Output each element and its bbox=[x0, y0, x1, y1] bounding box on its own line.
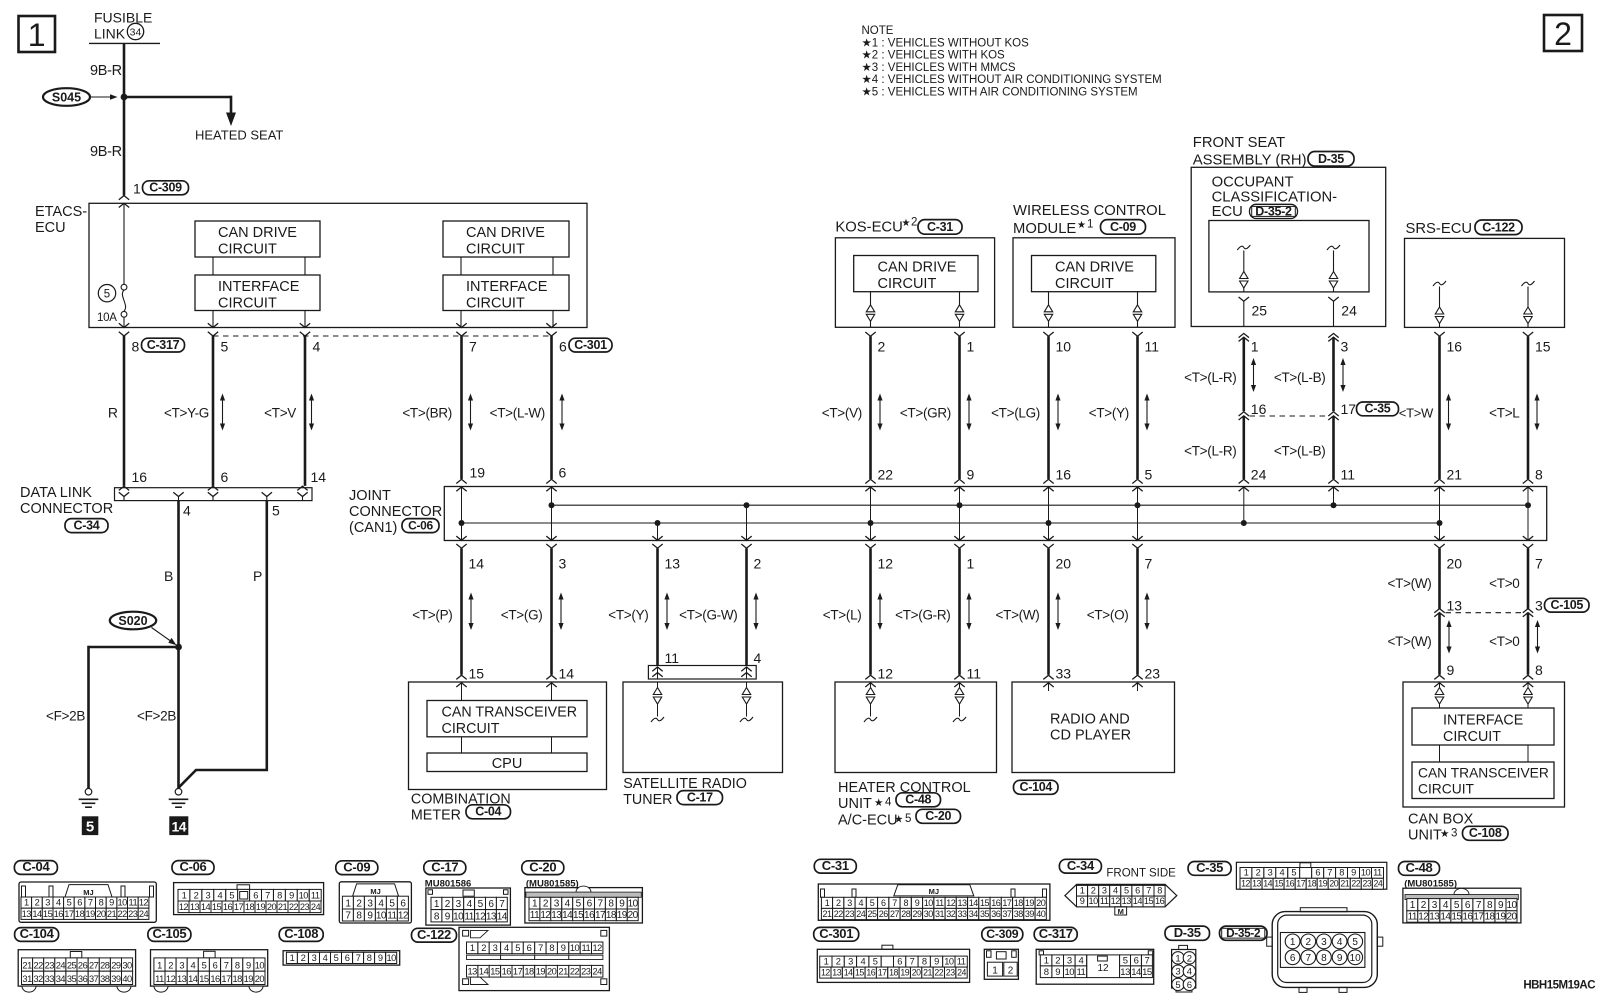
wire exit pin 15 bbox=[1523, 332, 1533, 336]
svg-text:13: 13 bbox=[1429, 912, 1440, 923]
connector D-35-2 pinout bbox=[1272, 912, 1377, 988]
DLC terminal bbox=[262, 492, 272, 496]
DLC terminal bbox=[119, 492, 129, 496]
svg-text:6: 6 bbox=[1187, 980, 1192, 991]
svg-text:12: 12 bbox=[821, 968, 830, 978]
svg-text:<T>(V): <T>(V) bbox=[822, 406, 862, 421]
svg-text:10: 10 bbox=[1361, 868, 1371, 878]
CPU box bbox=[427, 753, 587, 772]
svg-text:C-31: C-31 bbox=[927, 220, 953, 234]
svg-text:4: 4 bbox=[504, 943, 509, 953]
svg-text:25: 25 bbox=[867, 909, 877, 919]
svg-text:11: 11 bbox=[311, 890, 320, 900]
lower wire <T>(W) pin 20-33 bbox=[1047, 548, 1050, 674]
svg-text:5: 5 bbox=[873, 957, 878, 967]
svg-text:23: 23 bbox=[1145, 666, 1161, 682]
svg-text:13: 13 bbox=[177, 974, 187, 984]
page number box 1 bbox=[19, 16, 56, 52]
svg-text:5: 5 bbox=[1352, 937, 1358, 948]
svg-text:6: 6 bbox=[221, 469, 229, 485]
svg-text:<T>(P): <T>(P) bbox=[412, 608, 452, 623]
svg-text:11: 11 bbox=[128, 898, 137, 908]
connector C-34 pinout bbox=[1065, 884, 1177, 906]
svg-text:1: 1 bbox=[133, 181, 141, 197]
svg-text:OCCUPANT: OCCUPANT bbox=[1212, 175, 1294, 191]
svg-text:4: 4 bbox=[56, 898, 61, 908]
svg-text:1: 1 bbox=[967, 556, 975, 572]
joint connector column x=1048.5 bbox=[1048, 487, 1050, 541]
svg-text:16: 16 bbox=[1462, 912, 1473, 923]
svg-text:15: 15 bbox=[1274, 879, 1283, 889]
svg-text:11: 11 bbox=[464, 911, 474, 922]
svg-text:22: 22 bbox=[878, 467, 894, 483]
satellite radio tuner box bbox=[623, 682, 783, 773]
svg-text:1: 1 bbox=[157, 961, 162, 971]
svg-text:C-09: C-09 bbox=[1110, 220, 1136, 234]
svg-text:16: 16 bbox=[502, 967, 512, 977]
svg-text:2: 2 bbox=[836, 898, 841, 908]
svg-text:32: 32 bbox=[946, 909, 956, 919]
svg-text:CAN BOX: CAN BOX bbox=[1408, 812, 1474, 828]
svg-text:4: 4 bbox=[1113, 886, 1118, 896]
KOS pin line bbox=[959, 292, 961, 305]
svg-text:17: 17 bbox=[1296, 879, 1305, 889]
svg-text:4: 4 bbox=[1279, 868, 1284, 878]
svg-text:15: 15 bbox=[573, 910, 584, 921]
wire exit pin 2 bbox=[865, 332, 875, 336]
svg-text:11: 11 bbox=[1373, 868, 1382, 878]
svg-text:14: 14 bbox=[1131, 967, 1141, 978]
svg-text:5: 5 bbox=[1124, 886, 1129, 896]
joint connector column x=657.5 bbox=[657, 523, 659, 541]
lower wire col x=1528 upper part bbox=[1527, 548, 1530, 608]
svg-text:18: 18 bbox=[245, 902, 255, 912]
connector C-48 pinout bbox=[1403, 888, 1521, 923]
svg-text:19: 19 bbox=[86, 909, 96, 919]
svg-text:19: 19 bbox=[1495, 912, 1506, 923]
svg-text:INTERFACE: INTERFACE bbox=[218, 279, 300, 295]
svg-text:14: 14 bbox=[969, 898, 979, 908]
svg-text:34: 34 bbox=[130, 26, 142, 38]
svg-text:17: 17 bbox=[234, 902, 244, 912]
svg-text:19: 19 bbox=[244, 974, 254, 984]
svg-text:7: 7 bbox=[1306, 953, 1312, 964]
CAN-L bus line bbox=[462, 522, 1440, 524]
wire exit pin 11 bbox=[1132, 332, 1142, 336]
svg-text:39: 39 bbox=[111, 974, 121, 984]
svg-text:11: 11 bbox=[387, 910, 397, 921]
svg-text:MODULE: MODULE bbox=[1013, 221, 1076, 237]
svg-text:20: 20 bbox=[96, 909, 106, 919]
svg-text:4: 4 bbox=[1337, 937, 1343, 948]
svg-text:3: 3 bbox=[1341, 339, 1349, 355]
WCM pin line bbox=[1048, 292, 1050, 305]
lower wire <T>(G-R) pin 1-11 bbox=[958, 548, 961, 674]
sat pin symbol bbox=[657, 682, 659, 687]
svg-text:4: 4 bbox=[885, 797, 892, 809]
svg-text:13: 13 bbox=[22, 909, 32, 919]
svg-text:★: ★ bbox=[902, 218, 911, 229]
svg-text:<T>(L): <T>(L) bbox=[823, 608, 862, 623]
svg-text:C-301: C-301 bbox=[574, 338, 607, 352]
connector C-105 pinout bbox=[151, 950, 268, 986]
connector C-34 label bbox=[1059, 859, 1101, 873]
connector C-04 pinout bbox=[19, 882, 156, 922]
svg-text:30: 30 bbox=[924, 909, 934, 919]
arrow bbox=[968, 399, 970, 426]
svg-text:9: 9 bbox=[378, 953, 383, 963]
connector C-35 pinout bbox=[1236, 862, 1386, 889]
svg-text:15: 15 bbox=[199, 974, 209, 984]
data link connector box bbox=[115, 488, 313, 501]
svg-text:CAN TRANSCEIVER: CAN TRANSCEIVER bbox=[442, 705, 578, 721]
svg-text:23: 23 bbox=[946, 968, 955, 978]
svg-text:R: R bbox=[108, 405, 118, 421]
svg-text:DATA LINK: DATA LINK bbox=[20, 485, 92, 501]
updown arrow col7 bbox=[470, 399, 472, 426]
C-35 dashed line bbox=[1250, 415, 1329, 417]
svg-text:6: 6 bbox=[253, 890, 258, 900]
svg-text:14: 14 bbox=[311, 469, 327, 485]
svg-text:FRONT SIDE: FRONT SIDE bbox=[1106, 867, 1176, 879]
heater control unit box bbox=[835, 682, 997, 773]
svg-text:8: 8 bbox=[1157, 886, 1162, 896]
svg-text:MJ: MJ bbox=[83, 888, 93, 897]
svg-text:2: 2 bbox=[301, 953, 306, 963]
svg-text:S045: S045 bbox=[52, 91, 81, 105]
svg-text:19: 19 bbox=[470, 465, 486, 481]
svg-text:<T>(G): <T>(G) bbox=[501, 608, 543, 623]
connector C-31 label bbox=[814, 859, 856, 873]
WCM pin line bbox=[1137, 292, 1139, 305]
svg-text:12: 12 bbox=[1097, 963, 1109, 974]
svg-text:★: ★ bbox=[1440, 828, 1450, 840]
svg-text:29: 29 bbox=[912, 909, 922, 919]
transceiver-CPU links bbox=[461, 737, 463, 753]
svg-text:13: 13 bbox=[1120, 967, 1130, 978]
svg-text:7: 7 bbox=[910, 957, 915, 967]
svg-text:7: 7 bbox=[538, 943, 543, 953]
svg-text:13: 13 bbox=[551, 910, 562, 921]
joint connector column x=959.5 bbox=[959, 487, 961, 541]
svg-text:C-309: C-309 bbox=[986, 927, 1018, 941]
splice S045 bbox=[43, 88, 90, 106]
svg-text:<T>(L-B): <T>(L-B) bbox=[1274, 370, 1326, 385]
svg-text:15: 15 bbox=[980, 898, 990, 908]
svg-text:31: 31 bbox=[22, 974, 32, 984]
svg-text:INTERFACE: INTERFACE bbox=[1443, 713, 1523, 729]
svg-text:10: 10 bbox=[944, 957, 954, 967]
interface circuit box 1 bbox=[195, 275, 320, 311]
svg-text:12: 12 bbox=[139, 898, 149, 908]
svg-text:5: 5 bbox=[202, 961, 207, 971]
svg-text:★: ★ bbox=[874, 797, 884, 809]
interface 2 to edge bbox=[460, 311, 462, 328]
svg-text:7: 7 bbox=[224, 961, 229, 971]
svg-text:24: 24 bbox=[1374, 879, 1383, 889]
svg-text:14: 14 bbox=[188, 974, 198, 984]
fuse 5 10A bbox=[98, 285, 115, 302]
svg-text:2: 2 bbox=[836, 957, 841, 967]
svg-text:CIRCUIT: CIRCUIT bbox=[466, 296, 525, 312]
svg-text:2: 2 bbox=[168, 961, 173, 971]
can box pin entry bbox=[1527, 683, 1529, 687]
svg-text:18: 18 bbox=[75, 909, 85, 919]
svg-text:★: ★ bbox=[894, 814, 904, 826]
svg-text:19: 19 bbox=[536, 967, 546, 977]
svg-text:6: 6 bbox=[1290, 953, 1296, 964]
svg-text:23: 23 bbox=[581, 967, 591, 977]
svg-text:17: 17 bbox=[221, 974, 231, 984]
ground id 5 bbox=[82, 816, 99, 835]
svg-text:12: 12 bbox=[179, 902, 189, 912]
svg-text:ECU: ECU bbox=[35, 220, 66, 236]
svg-text:17: 17 bbox=[1002, 898, 1012, 908]
OCE pin exit chevron bbox=[1328, 297, 1338, 301]
joint connector box bbox=[444, 487, 1546, 541]
front seat wire pin 1 bbox=[1239, 333, 1249, 337]
connector C-105 label bbox=[148, 928, 191, 942]
svg-text:2: 2 bbox=[35, 898, 40, 908]
connector C-31 pinout bbox=[818, 884, 1050, 920]
satellite connector strip bbox=[648, 666, 756, 680]
svg-text:1: 1 bbox=[1175, 953, 1180, 964]
svg-text:C-35: C-35 bbox=[1196, 860, 1223, 875]
svg-text:MJ: MJ bbox=[929, 887, 939, 896]
svg-text:17: 17 bbox=[1341, 401, 1357, 417]
svg-text:10: 10 bbox=[1056, 339, 1072, 355]
connector C-20 pinout bbox=[525, 888, 643, 923]
svg-text:14: 14 bbox=[497, 911, 508, 922]
joint connector column x=1137.5 bbox=[1137, 487, 1139, 541]
svg-text:10: 10 bbox=[453, 911, 464, 922]
svg-text:23: 23 bbox=[45, 961, 55, 971]
can box pin entry bbox=[1439, 683, 1441, 687]
svg-text:1: 1 bbox=[290, 953, 295, 963]
svg-text:15: 15 bbox=[490, 967, 500, 977]
svg-text:11: 11 bbox=[1145, 339, 1160, 355]
svg-text:<F>2B: <F>2B bbox=[137, 709, 176, 724]
svg-text:38: 38 bbox=[100, 974, 110, 984]
svg-text:18: 18 bbox=[1014, 898, 1024, 908]
svg-text:15: 15 bbox=[855, 968, 864, 978]
svg-text:2: 2 bbox=[1554, 16, 1572, 52]
svg-text:C-06: C-06 bbox=[180, 859, 207, 874]
C-105 dashed line bbox=[1446, 612, 1524, 614]
svg-text:19: 19 bbox=[1318, 879, 1327, 889]
DLC terminal bbox=[208, 492, 218, 496]
svg-text:C-105: C-105 bbox=[1551, 598, 1584, 612]
updown arrow col5 bbox=[222, 399, 224, 426]
svg-text:12: 12 bbox=[540, 910, 551, 921]
svg-text:28: 28 bbox=[901, 909, 911, 919]
svg-text:1: 1 bbox=[1087, 219, 1093, 231]
svg-text:14: 14 bbox=[479, 967, 489, 977]
svg-text:36: 36 bbox=[991, 909, 1001, 919]
svg-text:16: 16 bbox=[1447, 339, 1463, 355]
svg-text:8: 8 bbox=[132, 339, 140, 355]
svg-text:<T>(W): <T>(W) bbox=[1388, 634, 1432, 649]
svg-text:19: 19 bbox=[256, 902, 266, 912]
connector C-301 label bbox=[814, 927, 859, 941]
svg-text:C-317: C-317 bbox=[147, 338, 180, 352]
svg-text:<T>(L-B): <T>(L-B) bbox=[1274, 444, 1326, 459]
svg-text:6: 6 bbox=[881, 898, 886, 908]
svg-text:1: 1 bbox=[967, 339, 975, 355]
svg-text:22: 22 bbox=[1351, 879, 1360, 889]
svg-text:5: 5 bbox=[104, 289, 110, 301]
lower wire <T>(O) pin 7-23 bbox=[1136, 548, 1139, 674]
svg-text:<T>(BR): <T>(BR) bbox=[402, 406, 452, 421]
svg-text:40: 40 bbox=[122, 974, 132, 984]
connector D-35 label bbox=[1165, 926, 1210, 940]
connector C-104 pinout bbox=[18, 950, 135, 986]
svg-text:★2 : VEHICLES WITH KOS: ★2 : VEHICLES WITH KOS bbox=[862, 50, 1006, 62]
inline connector C-35 wire 16 bbox=[1239, 412, 1249, 416]
svg-text:26: 26 bbox=[879, 909, 889, 919]
svg-text:4: 4 bbox=[1187, 967, 1192, 978]
ETACS pin 8 wire bbox=[119, 323, 129, 327]
svg-text:35: 35 bbox=[980, 909, 990, 919]
svg-text:C-48: C-48 bbox=[905, 793, 931, 807]
svg-text:FRONT SEAT: FRONT SEAT bbox=[1193, 135, 1285, 151]
svg-text:CD PLAYER: CD PLAYER bbox=[1050, 728, 1131, 744]
svg-text:<T>(W): <T>(W) bbox=[996, 608, 1040, 623]
C-105 chevrons bbox=[1523, 609, 1533, 613]
svg-text:8: 8 bbox=[549, 943, 554, 953]
svg-text:6: 6 bbox=[213, 961, 218, 971]
svg-text:10: 10 bbox=[1506, 900, 1517, 911]
svg-text:M: M bbox=[1118, 907, 1124, 916]
svg-text:CIRCUIT: CIRCUIT bbox=[878, 276, 937, 292]
svg-text:10: 10 bbox=[628, 898, 639, 909]
svg-text:JOINT: JOINT bbox=[349, 488, 391, 504]
svg-text:11: 11 bbox=[530, 910, 540, 921]
svg-text:P: P bbox=[253, 568, 262, 584]
connector C-06 pinout bbox=[174, 883, 324, 915]
svg-text:D-35: D-35 bbox=[1174, 925, 1201, 940]
svg-text:5: 5 bbox=[515, 943, 520, 953]
svg-text:C-48: C-48 bbox=[1406, 860, 1433, 875]
svg-text:31: 31 bbox=[935, 909, 945, 919]
svg-text:29: 29 bbox=[111, 961, 121, 971]
svg-text:3: 3 bbox=[312, 953, 317, 963]
connector C-301 pinout bbox=[817, 949, 969, 982]
svg-text:2: 2 bbox=[1008, 966, 1014, 977]
svg-text:12: 12 bbox=[593, 943, 603, 953]
svg-text:20: 20 bbox=[1506, 912, 1517, 923]
connector C-04 label bbox=[14, 861, 57, 875]
svg-text:12: 12 bbox=[1241, 879, 1250, 889]
svg-text:1: 1 bbox=[24, 898, 29, 908]
svg-text:2: 2 bbox=[754, 556, 762, 572]
link lines drive-interface 1 bbox=[212, 257, 214, 275]
CAN drive circuit box 2 bbox=[443, 221, 569, 257]
svg-text:8: 8 bbox=[1321, 953, 1327, 964]
arrow bbox=[1342, 363, 1344, 387]
svg-text:SATELLITE RADIO: SATELLITE RADIO bbox=[623, 776, 747, 792]
svg-text:16: 16 bbox=[1285, 879, 1294, 889]
svg-text:10: 10 bbox=[1088, 896, 1098, 906]
svg-text:NOTE: NOTE bbox=[862, 25, 894, 37]
interface circuit box 2 bbox=[443, 275, 569, 311]
splice S020 bbox=[110, 612, 156, 630]
svg-text:22: 22 bbox=[34, 961, 44, 971]
svg-text:13: 13 bbox=[957, 898, 967, 908]
lower wire col x=1528 lower part bbox=[1527, 613, 1530, 675]
ETACS pin 5 wire bbox=[208, 323, 218, 327]
svg-text:22: 22 bbox=[570, 967, 580, 977]
svg-text:C-301: C-301 bbox=[819, 926, 853, 941]
svg-text:12: 12 bbox=[946, 898, 956, 908]
svg-text:5: 5 bbox=[1175, 980, 1180, 991]
svg-text:3: 3 bbox=[1451, 828, 1457, 840]
svg-text:INTERFACE: INTERFACE bbox=[466, 279, 548, 295]
SRS pin symbol bbox=[1433, 281, 1446, 286]
svg-text:20: 20 bbox=[547, 967, 557, 977]
svg-text:<F>2B: <F>2B bbox=[46, 709, 85, 724]
svg-text:2: 2 bbox=[1091, 886, 1096, 896]
sat strip chevrons bbox=[652, 667, 662, 671]
joint connector column x=1333.5 bbox=[1333, 487, 1335, 506]
D-35-2 label pill bbox=[1250, 204, 1298, 218]
svg-text:8: 8 bbox=[1044, 967, 1049, 978]
connector C-317 pinout bbox=[1036, 949, 1154, 984]
svg-text:9: 9 bbox=[934, 957, 939, 967]
heater pin symbol bbox=[959, 683, 961, 687]
svg-text:9: 9 bbox=[1055, 967, 1060, 978]
svg-text:21: 21 bbox=[22, 961, 32, 971]
svg-text:10: 10 bbox=[387, 953, 397, 963]
svg-text:5: 5 bbox=[229, 890, 234, 900]
svg-text:9: 9 bbox=[246, 961, 251, 971]
svg-text:4: 4 bbox=[859, 898, 864, 908]
svg-text:C-17: C-17 bbox=[431, 859, 458, 874]
svg-text:C-35: C-35 bbox=[1365, 402, 1391, 416]
svg-text:21: 21 bbox=[1447, 467, 1463, 483]
svg-text:24: 24 bbox=[957, 968, 966, 978]
svg-text:23: 23 bbox=[1363, 879, 1372, 889]
svg-text:20: 20 bbox=[1447, 556, 1463, 572]
arrow bbox=[1253, 363, 1255, 387]
svg-text:<T>Y-G: <T>Y-G bbox=[164, 406, 209, 421]
svg-text:<T>(Y): <T>(Y) bbox=[608, 608, 648, 623]
connector C-317 label bbox=[1034, 927, 1077, 941]
svg-text:15: 15 bbox=[1142, 967, 1152, 978]
can transceiver circuit box canbox bbox=[1412, 762, 1554, 799]
svg-text:<T>0: <T>0 bbox=[1489, 634, 1519, 649]
ETACS pin 7 wire bbox=[456, 323, 466, 327]
svg-text:C-34: C-34 bbox=[74, 518, 100, 532]
wire 1 entry chevrons bbox=[119, 196, 129, 200]
svg-text:C-04: C-04 bbox=[475, 805, 501, 819]
svg-text:27: 27 bbox=[89, 961, 99, 971]
connector D-35-2 label bbox=[1220, 926, 1268, 940]
lower wire <T>(L) pin 12-12 bbox=[869, 548, 872, 674]
svg-text:12: 12 bbox=[398, 910, 409, 921]
page number box 2 bbox=[1544, 15, 1582, 51]
svg-text:14: 14 bbox=[562, 910, 573, 921]
svg-text:8: 8 bbox=[235, 961, 240, 971]
svg-text:9: 9 bbox=[561, 943, 566, 953]
C-105 chevrons bbox=[1434, 609, 1444, 613]
OCE pin exit chevron bbox=[1239, 297, 1249, 301]
svg-text:15: 15 bbox=[469, 666, 485, 682]
svg-text:19: 19 bbox=[617, 910, 628, 921]
svg-text:8: 8 bbox=[99, 898, 104, 908]
svg-text:3: 3 bbox=[1102, 886, 1107, 896]
svg-text:34: 34 bbox=[969, 909, 979, 919]
